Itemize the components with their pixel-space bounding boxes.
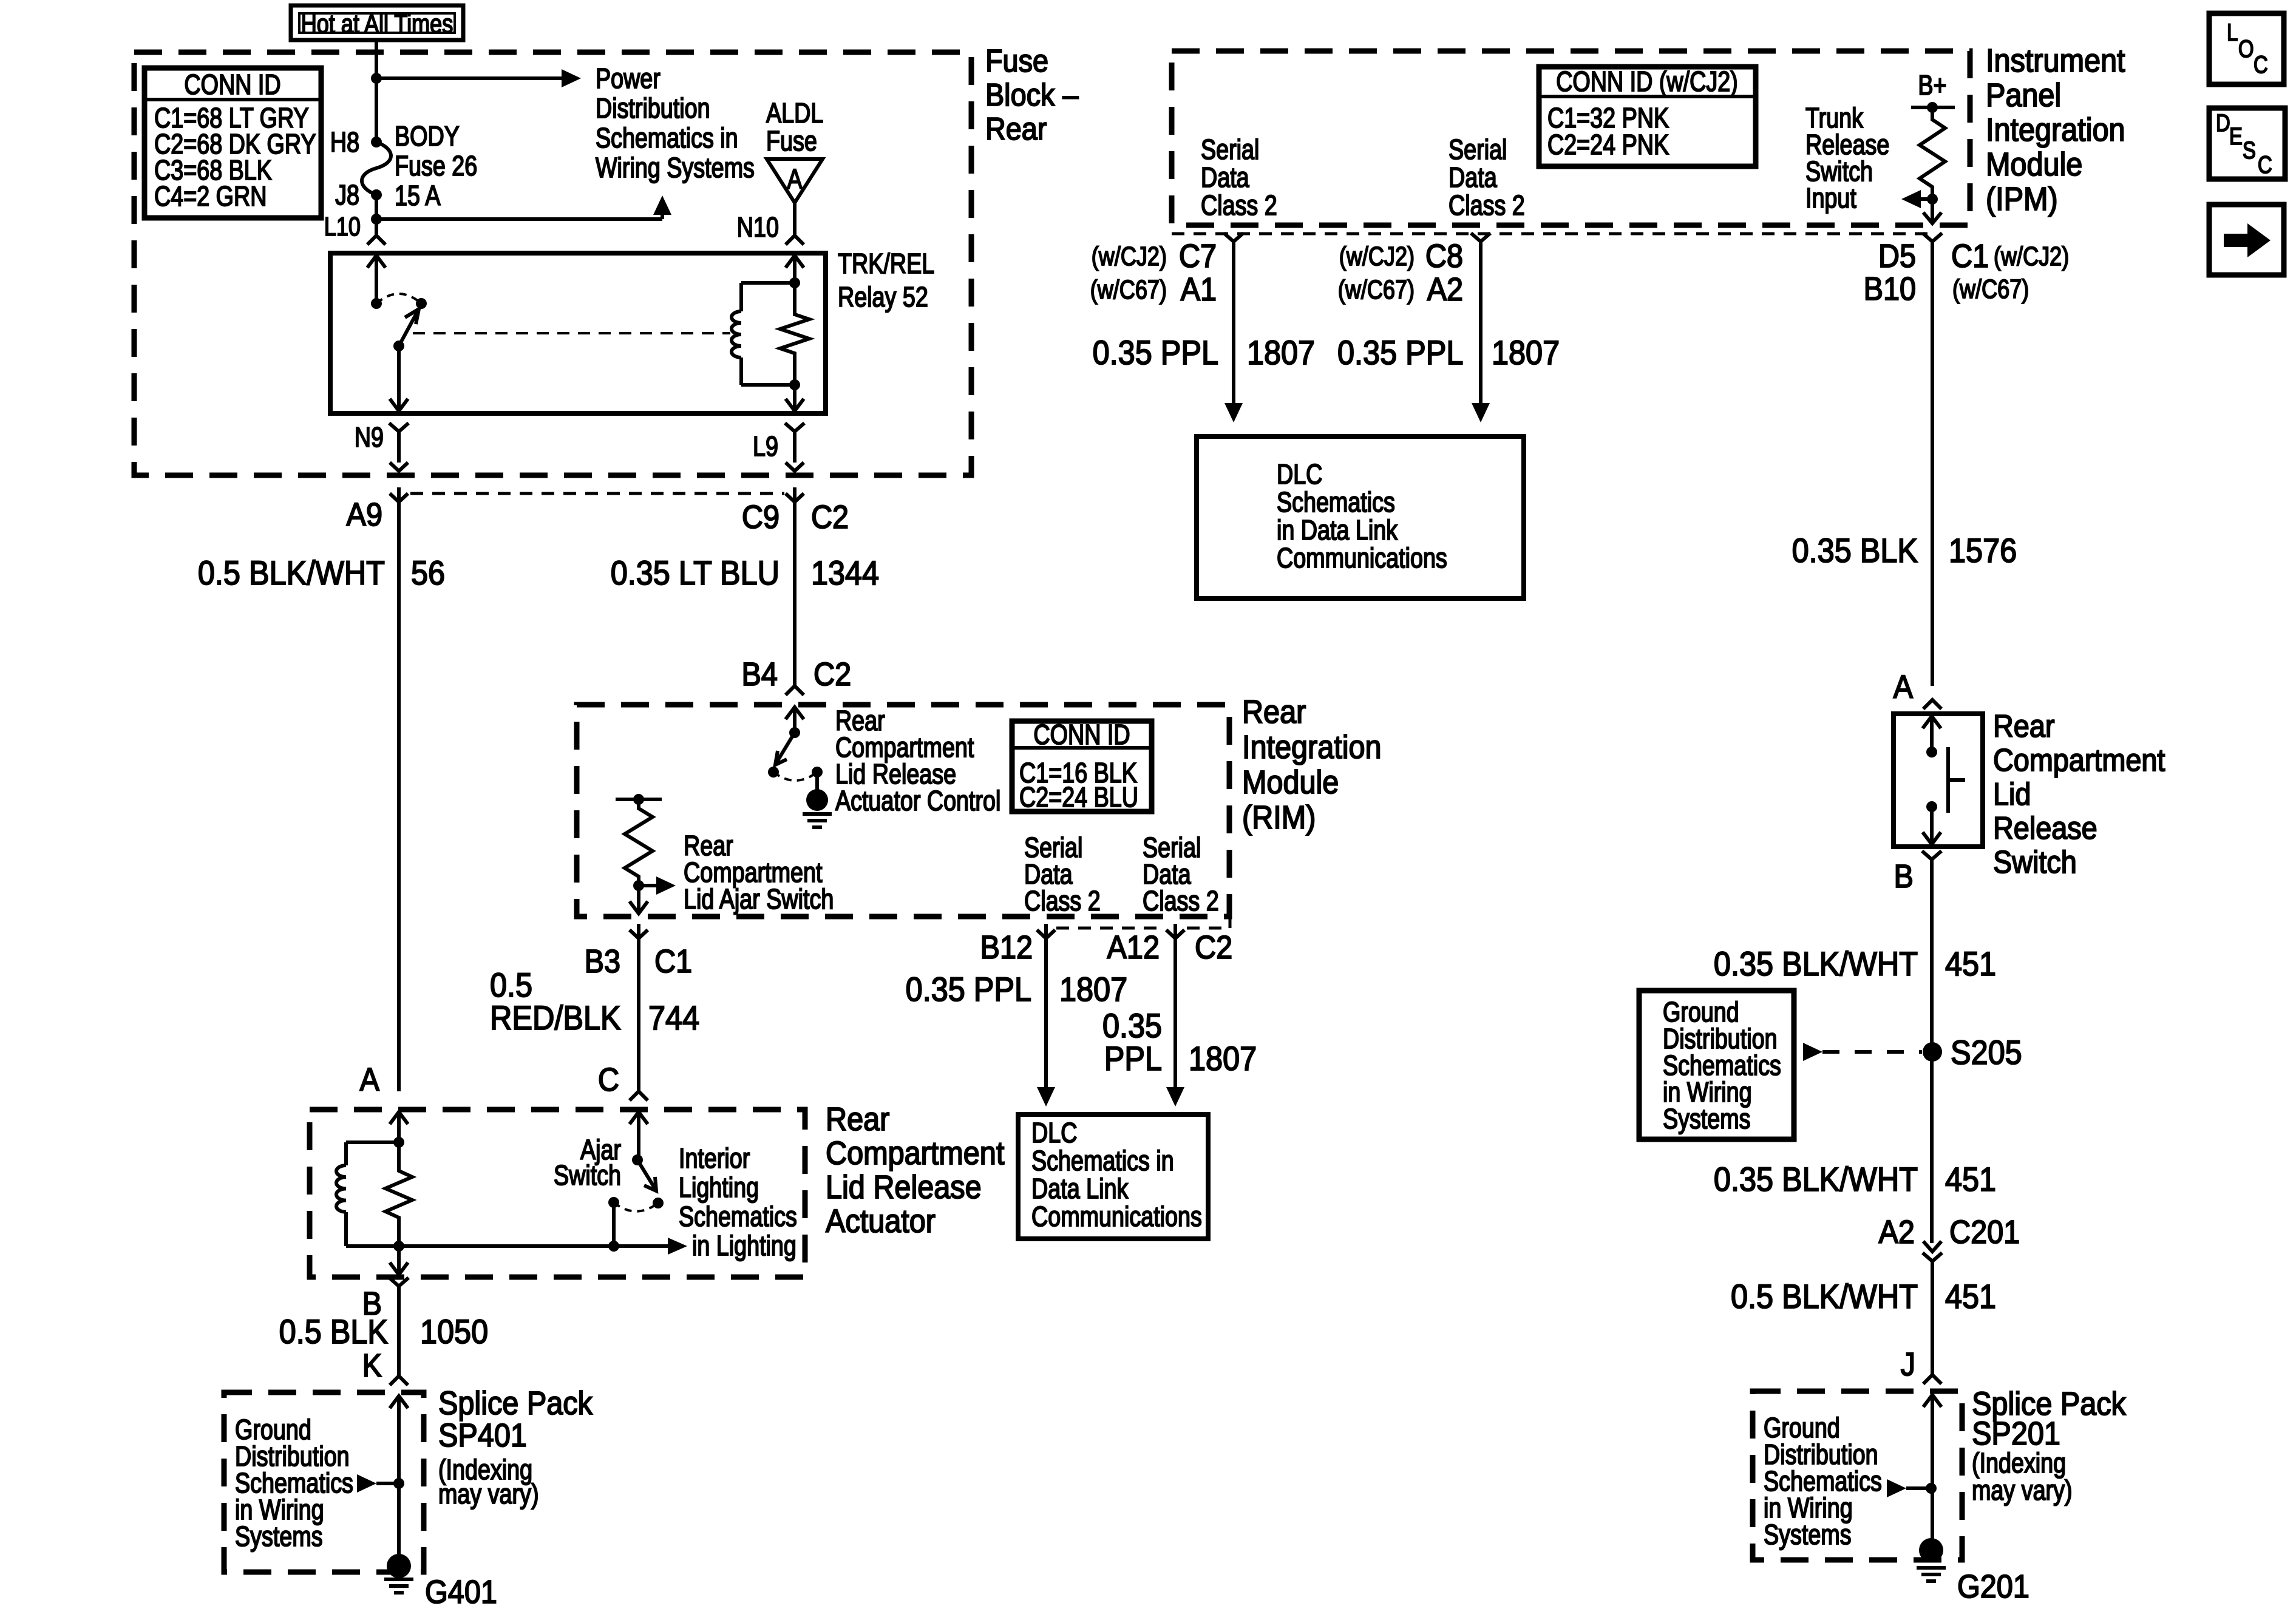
svg-text:1576: 1576 xyxy=(1949,532,2017,570)
svg-text:A1: A1 xyxy=(1181,271,1217,308)
svg-text:A12: A12 xyxy=(1107,929,1160,966)
svg-text:Instrument: Instrument xyxy=(1986,42,2125,79)
svg-text:Communications: Communications xyxy=(1031,1201,1202,1232)
svg-text:0.35 PPL: 0.35 PPL xyxy=(906,971,1031,1009)
svg-text:A: A xyxy=(1894,668,1914,705)
svg-text:0.35 PPL: 0.35 PPL xyxy=(1337,334,1463,372)
svg-text:0.35: 0.35 xyxy=(1102,1008,1162,1045)
svg-text:(w/CJ2): (w/CJ2) xyxy=(1339,242,1415,271)
svg-text:1050: 1050 xyxy=(420,1313,488,1351)
svg-text:(w/C67): (w/C67) xyxy=(1338,275,1415,305)
svg-text:1344: 1344 xyxy=(811,555,879,592)
svg-text:C: C xyxy=(2254,51,2268,78)
svg-text:Serial: Serial xyxy=(1449,134,1507,164)
svg-text:0.5 BLK: 0.5 BLK xyxy=(279,1313,388,1351)
svg-text:Switch: Switch xyxy=(554,1159,621,1190)
svg-text:B3: B3 xyxy=(585,943,620,980)
svg-text:451: 451 xyxy=(1945,1161,1996,1199)
svg-text:Lid: Lid xyxy=(1993,777,2031,812)
svg-text:C2: C2 xyxy=(813,656,851,693)
svg-text:Class 2: Class 2 xyxy=(1024,885,1101,916)
svg-text:in Data Link: in Data Link xyxy=(1277,514,1398,545)
svg-text:Rear: Rear xyxy=(826,1100,889,1137)
svg-text:J: J xyxy=(1901,1346,1915,1383)
svg-text:PPL: PPL xyxy=(1104,1040,1162,1078)
svg-text:0.35 BLK/WHT: 0.35 BLK/WHT xyxy=(1714,1161,1918,1199)
svg-text:CONN ID (w/CJ2): CONN ID (w/CJ2) xyxy=(1556,66,1738,97)
svg-text:G401: G401 xyxy=(425,1573,497,1610)
svg-text:1807: 1807 xyxy=(1189,1040,1257,1078)
svg-text:Schematics in: Schematics in xyxy=(1031,1145,1174,1176)
svg-text:B4: B4 xyxy=(742,656,778,693)
svg-text:C1: C1 xyxy=(654,943,692,980)
svg-text:may vary): may vary) xyxy=(438,1478,539,1509)
svg-text:Power: Power xyxy=(596,63,661,93)
svg-text:0.5: 0.5 xyxy=(490,967,532,1005)
svg-text:H8: H8 xyxy=(330,126,359,157)
svg-text:S: S xyxy=(2243,137,2256,164)
svg-text:C4=2 GRN: C4=2 GRN xyxy=(154,180,267,211)
svg-text:Module: Module xyxy=(1242,764,1339,801)
svg-text:0.35 BLK: 0.35 BLK xyxy=(1792,532,1918,570)
svg-text:CONN ID: CONN ID xyxy=(184,69,280,100)
svg-text:A2: A2 xyxy=(1879,1213,1915,1250)
svg-text:DLC: DLC xyxy=(1277,458,1322,489)
svg-text:S205: S205 xyxy=(1951,1034,2022,1072)
svg-text:Class 2: Class 2 xyxy=(1201,189,1277,220)
svg-text:Hot at All Times: Hot at All Times xyxy=(301,9,453,39)
svg-text:C7: C7 xyxy=(1179,237,1217,274)
svg-text:O: O xyxy=(2238,35,2254,63)
svg-text:Lid Ajar Switch: Lid Ajar Switch xyxy=(684,883,834,914)
svg-text:1807: 1807 xyxy=(1492,334,1560,372)
svg-text:Systems: Systems xyxy=(1764,1519,1852,1550)
svg-text:1807: 1807 xyxy=(1059,971,1127,1009)
svg-text:744: 744 xyxy=(648,1000,699,1037)
svg-text:Data: Data xyxy=(1449,161,1497,192)
svg-text:Class 2: Class 2 xyxy=(1449,189,1525,220)
svg-text:N9: N9 xyxy=(355,421,384,452)
svg-text:Release: Release xyxy=(1993,811,2097,846)
svg-text:Rear: Rear xyxy=(1993,709,2054,744)
svg-text:1807: 1807 xyxy=(1247,334,1315,372)
svg-text:B10: B10 xyxy=(1864,270,1916,307)
svg-text:(w/CJ2): (w/CJ2) xyxy=(1092,242,1167,271)
svg-text:in Lighting: in Lighting xyxy=(692,1230,796,1261)
svg-text:C8: C8 xyxy=(1425,237,1463,274)
svg-text:0.35 BLK/WHT: 0.35 BLK/WHT xyxy=(1714,946,1918,983)
svg-text:Lighting: Lighting xyxy=(679,1171,759,1202)
svg-text:A2: A2 xyxy=(1427,271,1463,308)
svg-text:may vary): may vary) xyxy=(1972,1474,2073,1505)
svg-text:Integration: Integration xyxy=(1242,728,1382,765)
svg-text:Systems: Systems xyxy=(235,1520,323,1551)
svg-text:56: 56 xyxy=(411,555,445,592)
svg-text:Serial: Serial xyxy=(1201,134,1259,164)
svg-text:D5: D5 xyxy=(1878,237,1916,274)
svg-text:D: D xyxy=(2216,109,2230,137)
svg-text:Input: Input xyxy=(1805,182,1856,213)
svg-text:B: B xyxy=(1894,858,1914,895)
svg-text:Panel: Panel xyxy=(1986,76,2061,114)
svg-text:Fuse: Fuse xyxy=(985,44,1048,79)
svg-text:Splice Pack: Splice Pack xyxy=(438,1384,593,1422)
svg-text:SP401: SP401 xyxy=(438,1417,527,1454)
svg-text:C2=24 PNK: C2=24 PNK xyxy=(1547,129,1669,160)
svg-text:G201: G201 xyxy=(1957,1568,2029,1605)
svg-text:C2=24 BLU: C2=24 BLU xyxy=(1019,781,1138,812)
svg-text:CONN ID: CONN ID xyxy=(1033,719,1130,750)
svg-text:K: K xyxy=(362,1347,382,1384)
svg-text:451: 451 xyxy=(1945,1278,1996,1316)
svg-text:Compartment: Compartment xyxy=(826,1134,1004,1171)
svg-text:Data Link: Data Link xyxy=(1031,1173,1129,1204)
svg-text:Fuse: Fuse xyxy=(766,125,817,156)
svg-text:C: C xyxy=(598,1061,619,1098)
svg-text:Schematics: Schematics xyxy=(679,1201,797,1232)
svg-text:Schematics: Schematics xyxy=(1277,486,1395,517)
svg-text:(IPM): (IPM) xyxy=(1986,180,2058,217)
svg-text:Module: Module xyxy=(1986,146,2082,183)
svg-text:Schematics in: Schematics in xyxy=(596,122,738,153)
svg-text:J8: J8 xyxy=(335,179,359,210)
svg-text:Distribution: Distribution xyxy=(596,92,710,123)
svg-text:A: A xyxy=(787,163,802,194)
svg-text:(w/C67): (w/C67) xyxy=(1090,275,1167,305)
svg-text:SP201: SP201 xyxy=(1972,1415,2060,1452)
svg-text:(w/C67): (w/C67) xyxy=(1952,274,2029,304)
svg-text:E: E xyxy=(2229,123,2243,150)
svg-text:L: L xyxy=(2227,19,2238,46)
svg-text:Compartment: Compartment xyxy=(1993,743,2165,778)
svg-text:ALDL: ALDL xyxy=(766,97,823,128)
svg-text:A: A xyxy=(360,1061,380,1098)
svg-text:L10: L10 xyxy=(324,212,361,242)
svg-text:Actuator Control: Actuator Control xyxy=(835,785,1000,816)
svg-text:Interior: Interior xyxy=(679,1142,750,1173)
svg-text:Rear: Rear xyxy=(1242,693,1306,730)
svg-text:Switch: Switch xyxy=(1993,845,2077,880)
svg-text:Rear: Rear xyxy=(985,112,1047,147)
svg-text:C: C xyxy=(2258,151,2272,178)
svg-text:B12: B12 xyxy=(980,929,1033,966)
svg-text:Communications: Communications xyxy=(1277,542,1447,573)
svg-text:B+: B+ xyxy=(1918,69,1946,100)
svg-text:N10: N10 xyxy=(737,211,779,242)
svg-text:TRK/REL: TRK/REL xyxy=(838,248,934,279)
svg-text:(RIM): (RIM) xyxy=(1242,799,1316,836)
svg-text:0.5 BLK/WHT: 0.5 BLK/WHT xyxy=(198,555,385,592)
svg-text:15 A: 15 A xyxy=(395,180,440,211)
svg-text:DLC: DLC xyxy=(1031,1117,1077,1148)
svg-text:0.5 BLK/WHT: 0.5 BLK/WHT xyxy=(1731,1278,1918,1316)
svg-text:L9: L9 xyxy=(753,430,778,461)
svg-text:Fuse 26: Fuse 26 xyxy=(395,150,477,181)
svg-text:C1: C1 xyxy=(1951,237,1989,274)
svg-text:Wiring Systems: Wiring Systems xyxy=(596,152,755,183)
svg-text:C9: C9 xyxy=(742,498,779,535)
svg-text:C2: C2 xyxy=(1195,929,1232,966)
svg-text:Integration: Integration xyxy=(1986,111,2125,148)
svg-text:(w/CJ2): (w/CJ2) xyxy=(1994,242,2069,271)
svg-text:Block –: Block – xyxy=(985,78,1079,113)
svg-text:0.35 LT BLU: 0.35 LT BLU xyxy=(611,555,779,592)
svg-text:Actuator: Actuator xyxy=(826,1202,936,1239)
svg-text:A9: A9 xyxy=(347,496,382,533)
svg-text:0.35 PPL: 0.35 PPL xyxy=(1093,334,1218,372)
svg-text:Relay 52: Relay 52 xyxy=(838,281,928,312)
svg-text:Lid Release: Lid Release xyxy=(826,1168,982,1205)
svg-text:451: 451 xyxy=(1945,946,1996,983)
svg-text:Systems: Systems xyxy=(1663,1103,1751,1134)
svg-text:(Indexing: (Indexing xyxy=(1972,1447,2066,1478)
svg-text:Data: Data xyxy=(1201,161,1249,192)
svg-text:BODY: BODY xyxy=(395,120,460,151)
svg-text:RED/BLK: RED/BLK xyxy=(490,1000,621,1037)
svg-text:Class 2: Class 2 xyxy=(1143,885,1219,916)
svg-text:C2: C2 xyxy=(811,498,849,535)
svg-text:C201: C201 xyxy=(1949,1213,2020,1250)
